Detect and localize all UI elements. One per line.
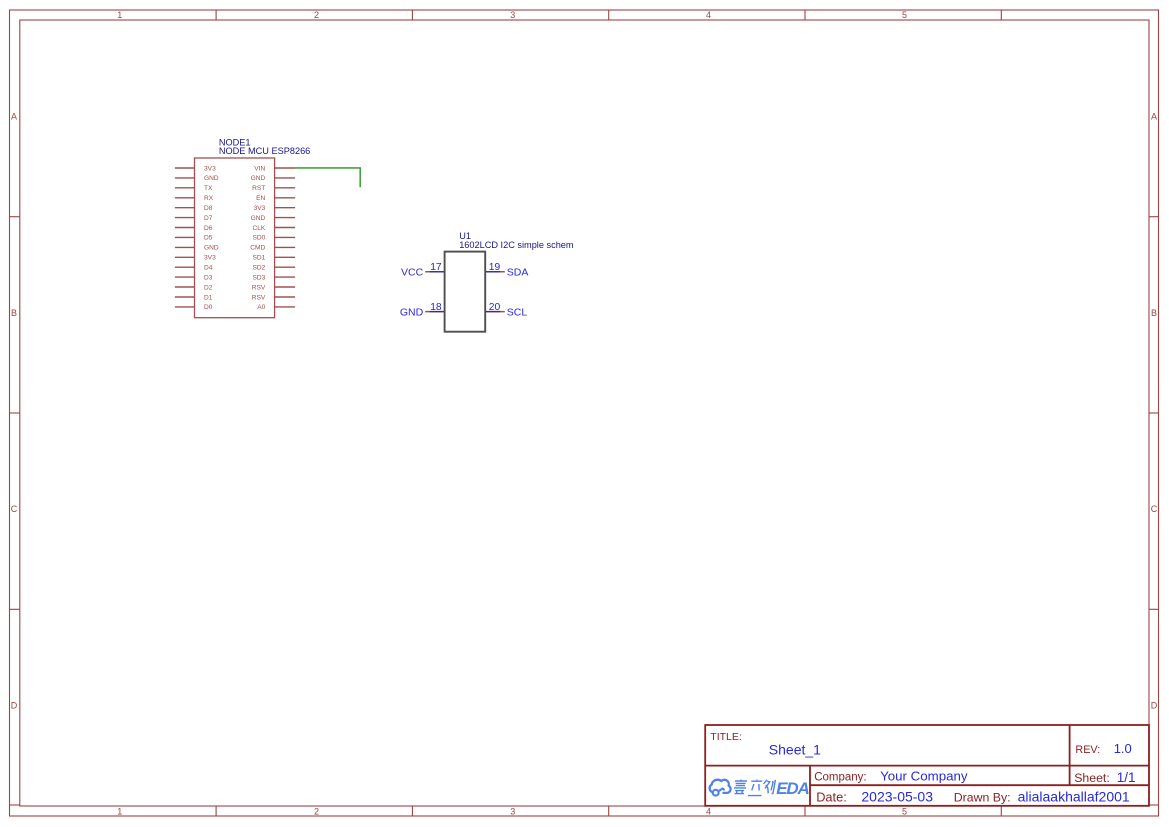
svg-text:RST: RST xyxy=(252,185,265,192)
svg-text:RSV: RSV xyxy=(252,294,266,301)
svg-text:D0: D0 xyxy=(204,304,213,311)
svg-text:1: 1 xyxy=(117,807,122,817)
Sheet value 1/1 xyxy=(1117,770,1136,785)
net label SCL xyxy=(507,306,528,318)
U1 pin 20 xyxy=(485,311,505,313)
svg-text:1602LCD I2C simple schem: 1602LCD I2C simple schem xyxy=(459,240,574,250)
svg-text:2: 2 xyxy=(314,10,319,20)
svg-text:A: A xyxy=(11,112,17,122)
svg-text:RX: RX xyxy=(204,195,214,202)
U1 pin number 20 xyxy=(489,302,501,313)
TITLE: label xyxy=(710,731,742,743)
Sheet: label xyxy=(1074,771,1110,785)
svg-text:A: A xyxy=(1151,112,1157,122)
svg-text:SDA: SDA xyxy=(507,267,529,279)
svg-text:3: 3 xyxy=(510,10,515,20)
sheet title Sheet_1 xyxy=(769,742,821,758)
Company value Your Company xyxy=(880,769,968,784)
U1 pin 19 xyxy=(485,271,505,273)
svg-text:REV:: REV: xyxy=(1075,744,1100,756)
U1 part name label 1602LCD I2C simple schem xyxy=(459,240,574,250)
title block frame xyxy=(705,725,1149,806)
svg-text:D2: D2 xyxy=(204,284,213,291)
svg-text:GND: GND xyxy=(251,215,266,222)
svg-text:C: C xyxy=(1151,504,1158,514)
net label VCC xyxy=(401,267,424,279)
svg-text:D: D xyxy=(11,700,18,710)
REV value 1.0 xyxy=(1114,741,1132,756)
net label SDA xyxy=(507,267,529,279)
svg-text:5: 5 xyxy=(902,807,907,817)
svg-text:3V3: 3V3 xyxy=(204,255,216,262)
U1 pin number 19 xyxy=(489,262,501,273)
svg-text:CMD: CMD xyxy=(250,245,265,252)
svg-text:D3: D3 xyxy=(204,274,213,281)
svg-text:GND: GND xyxy=(204,175,219,182)
U1 pin number 18 xyxy=(430,302,442,313)
svg-text:GND: GND xyxy=(204,245,219,252)
svg-text:D4: D4 xyxy=(204,265,213,272)
NODE1 left pin name labels xyxy=(204,165,219,311)
svg-text:SD2: SD2 xyxy=(252,265,265,272)
U1 pin 17 xyxy=(425,271,444,273)
svg-text:D: D xyxy=(1151,700,1158,710)
svg-text:alialaakhallaf2001: alialaakhallaf2001 xyxy=(1018,789,1130,805)
svg-text:4: 4 xyxy=(706,10,711,20)
net label GND xyxy=(400,306,424,318)
svg-text:GND: GND xyxy=(251,175,266,182)
svg-text:SD0: SD0 xyxy=(252,235,265,242)
Date value 2023-05-03 xyxy=(861,789,933,805)
svg-text:1: 1 xyxy=(117,10,122,20)
svg-text:TITLE:: TITLE: xyxy=(710,731,742,743)
JLC EDA logo text 嘉立创EDA xyxy=(733,780,776,796)
svg-text:Drawn By:: Drawn By: xyxy=(954,791,1011,805)
svg-text:Your Company: Your Company xyxy=(880,769,968,784)
svg-text:19: 19 xyxy=(489,262,501,273)
svg-text:1/1: 1/1 xyxy=(1117,770,1136,785)
svg-text:EDA: EDA xyxy=(776,779,809,798)
Company: label xyxy=(814,771,866,783)
svg-text:SCL: SCL xyxy=(507,306,528,318)
svg-text:B: B xyxy=(1151,308,1157,318)
svg-text:3: 3 xyxy=(510,807,515,817)
Date: label xyxy=(816,790,847,805)
svg-text:B: B xyxy=(11,308,17,318)
svg-text:2023-05-03: 2023-05-03 xyxy=(861,789,933,805)
svg-text:Sheet_1: Sheet_1 xyxy=(769,742,821,758)
IC U1 symbol body xyxy=(445,252,486,332)
Drawn By: label xyxy=(954,791,1011,805)
svg-text:SD1: SD1 xyxy=(252,255,265,262)
REV: label xyxy=(1075,744,1100,756)
JLC EDA logo text EDA xyxy=(776,779,809,798)
svg-text:Sheet:: Sheet: xyxy=(1074,771,1110,785)
svg-text:GND: GND xyxy=(400,306,424,318)
IC NODE1 symbol body xyxy=(195,158,275,318)
NODE1 designator label xyxy=(219,137,251,147)
U1 designator label xyxy=(459,231,471,241)
NODE1 right pins VIN,GND,RST,EN,3V3,GND,CLK,SD0,CMD,SD1,SD2,SD3,RSV,RSV,A0 xyxy=(275,168,296,307)
svg-text:VIN: VIN xyxy=(254,165,265,172)
svg-text:17: 17 xyxy=(430,262,442,273)
Drawn By value alialaakhallaf2001 xyxy=(1018,789,1130,805)
wire from NODE1 VIN pin xyxy=(295,168,360,187)
svg-text:A0: A0 xyxy=(257,304,265,311)
svg-text:18: 18 xyxy=(430,302,442,313)
svg-text:D1: D1 xyxy=(204,294,213,301)
svg-text:SD3: SD3 xyxy=(252,274,265,281)
JLC EDA logo (cloud icon) xyxy=(710,780,731,796)
svg-text:D8: D8 xyxy=(204,205,213,212)
svg-text:NODE MCU ESP8266: NODE MCU ESP8266 xyxy=(219,146,310,156)
svg-text:1.0: 1.0 xyxy=(1114,741,1132,756)
svg-text:3V3: 3V3 xyxy=(254,205,266,212)
svg-text:VCC: VCC xyxy=(401,267,424,279)
svg-text:CLK: CLK xyxy=(252,225,265,232)
svg-text:4: 4 xyxy=(706,807,711,817)
svg-text:2: 2 xyxy=(314,807,319,817)
svg-text:5: 5 xyxy=(902,10,907,20)
NODE1 part name label NODE MCU ESP8266 xyxy=(219,146,310,156)
svg-text:EN: EN xyxy=(256,195,265,202)
svg-text:D6: D6 xyxy=(204,225,213,232)
svg-text:20: 20 xyxy=(489,302,501,313)
NODE1 right pin name labels xyxy=(250,165,266,311)
svg-text:TX: TX xyxy=(204,185,213,192)
svg-text:RSV: RSV xyxy=(252,284,266,291)
svg-text:3V3: 3V3 xyxy=(204,165,216,172)
svg-text:D7: D7 xyxy=(204,215,213,222)
U1 pin number 17 xyxy=(430,262,442,273)
svg-text:C: C xyxy=(11,504,18,514)
NODE1 left pins 3V3,GND,TX,RX,D8,D7,D6,D5,GND,3V3,D4,D3,D2,D1,D0 xyxy=(175,168,195,307)
svg-text:Company:: Company: xyxy=(814,771,866,783)
svg-text:D5: D5 xyxy=(204,235,213,242)
svg-text:Date:: Date: xyxy=(816,790,847,805)
U1 pin 18 xyxy=(425,311,444,313)
